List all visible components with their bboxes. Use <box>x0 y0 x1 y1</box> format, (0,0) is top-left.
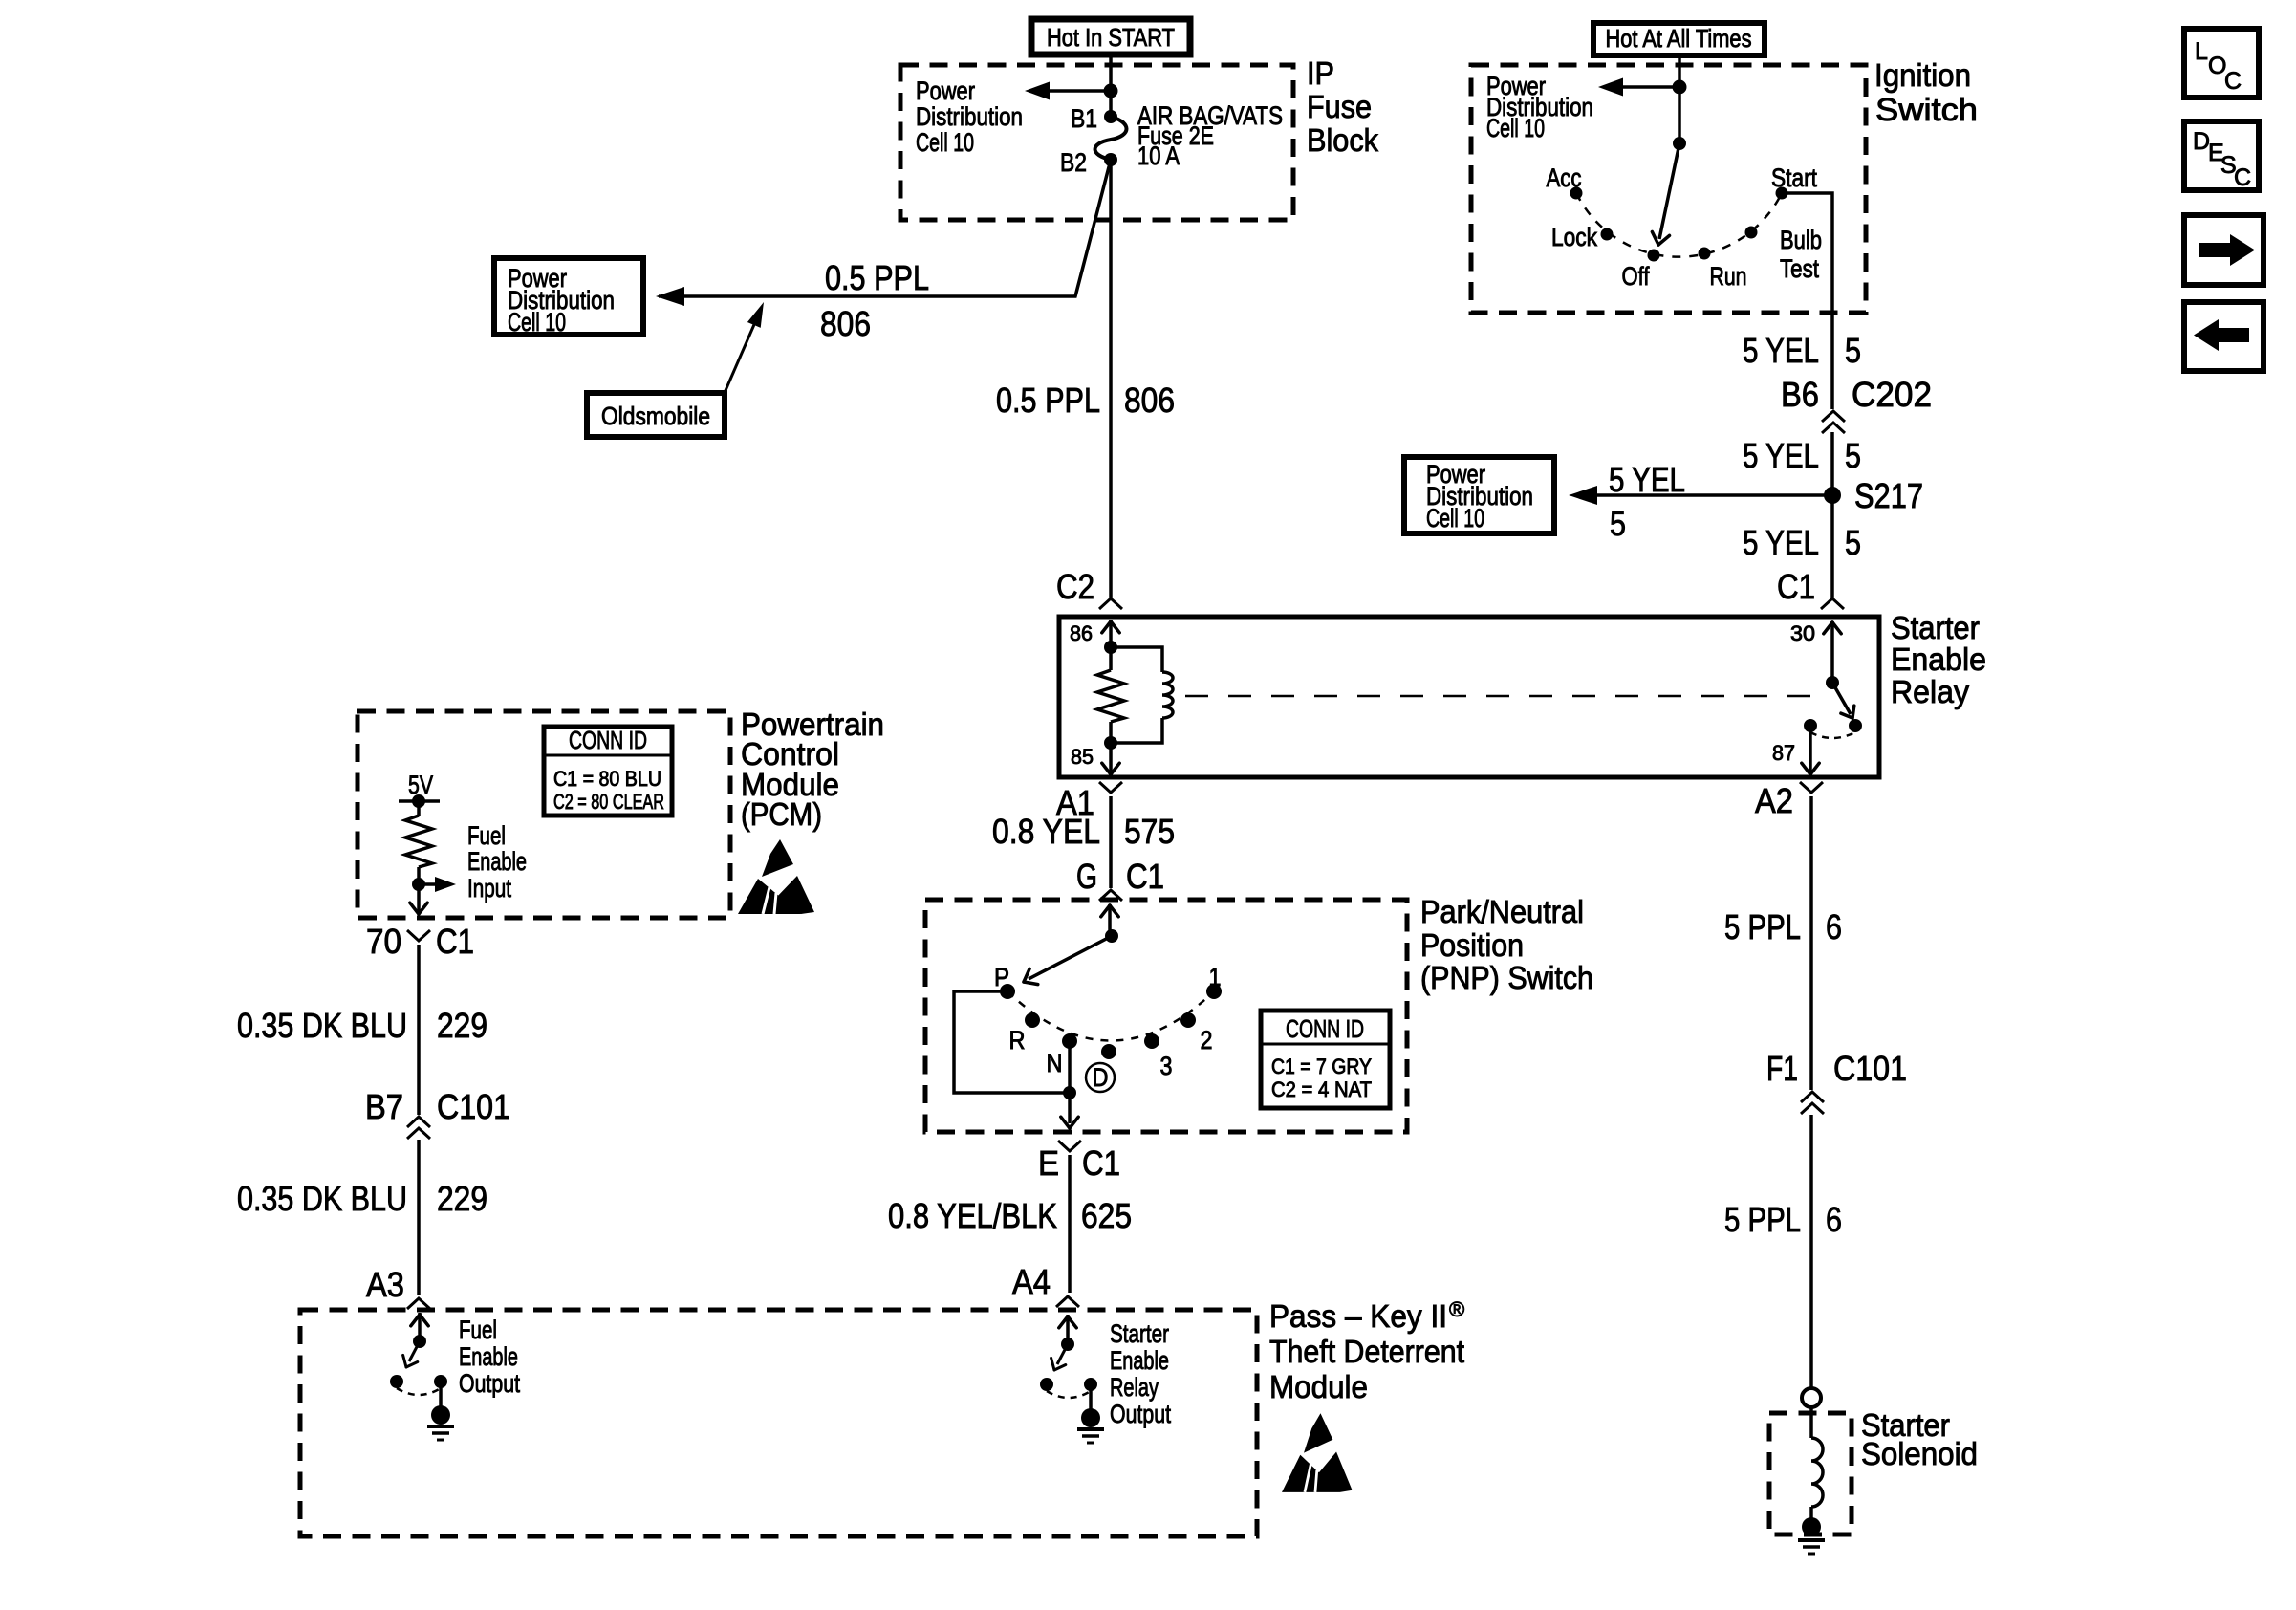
svg-text:86: 86 <box>1070 621 1093 645</box>
svg-text:IP: IP <box>1307 55 1334 91</box>
header Hot At All Times <box>1593 23 1765 55</box>
svg-text:5 YEL: 5 YEL <box>1609 460 1685 499</box>
svg-text:0.35 DK BLU: 0.35 DK BLU <box>237 1006 407 1045</box>
svg-text:6: 6 <box>1826 907 1842 946</box>
svg-text:C2 = 4 NAT: C2 = 4 NAT <box>1271 1077 1372 1101</box>
svg-text:Cell 10: Cell 10 <box>916 128 974 157</box>
ground (starter solenoid) <box>1802 1517 1821 1536</box>
svg-text:A2: A2 <box>1755 781 1793 820</box>
contact P <box>1000 984 1015 999</box>
svg-text:Park/Neutral: Park/Neutral <box>1420 894 1584 929</box>
svg-text:Relay: Relay <box>1891 674 1969 709</box>
ground (starter enable relay output) <box>1089 1384 1093 1410</box>
resistor fuel enable <box>417 801 421 816</box>
svg-text:10 A: 10 A <box>1137 141 1180 170</box>
connector A1 chevron <box>1099 782 1122 793</box>
component box Starter Solenoid <box>1769 1413 1852 1534</box>
wire 5 YEL below C202 <box>1830 432 1834 598</box>
svg-text:5 PPL: 5 PPL <box>1724 907 1801 946</box>
wire 0.35 DK BLU 229 lower <box>417 1140 421 1295</box>
svg-text:Starter: Starter <box>1110 1319 1169 1348</box>
fuel enable input node <box>412 878 425 891</box>
svg-text:5 PPL: 5 PPL <box>1724 1200 1801 1239</box>
component box Powertrain Control Module <box>357 711 730 918</box>
component box Pass-Key II Theft Deterrent Module <box>300 1310 1257 1536</box>
relay switch arm <box>1826 676 1839 689</box>
svg-text:A4: A4 <box>1012 1262 1051 1301</box>
svg-text:C2: C2 <box>1056 567 1094 606</box>
svg-text:F1: F1 <box>1766 1049 1798 1088</box>
connector E chevron <box>1058 1141 1081 1151</box>
wire 0.35 DK BLU 229 upper <box>417 945 421 1115</box>
svg-text:806: 806 <box>1124 381 1175 420</box>
svg-text:®: ® <box>1449 1297 1464 1321</box>
component box Ignition Switch <box>1471 65 1866 313</box>
svg-text:Test: Test <box>1780 254 1819 283</box>
fuel enable output switch <box>418 1313 422 1341</box>
contact Acc <box>1570 187 1583 200</box>
svg-text:Run: Run <box>1710 262 1747 291</box>
svg-text:C: C <box>2224 68 2242 95</box>
svg-text:C101: C101 <box>1833 1049 1907 1088</box>
svg-text:806: 806 <box>820 304 871 343</box>
contact R <box>1025 1012 1040 1028</box>
svg-text:0.5 PPL: 0.5 PPL <box>996 381 1100 420</box>
svg-text:B2: B2 <box>1060 148 1087 177</box>
svg-text:229: 229 <box>437 1006 487 1045</box>
svg-text:Start: Start <box>1771 163 1817 192</box>
connector 70 C1 chevron <box>407 930 430 941</box>
svg-text:Starter: Starter <box>1891 610 1980 645</box>
svg-text:Pass – Key II: Pass – Key II <box>1269 1298 1447 1334</box>
svg-text:0.8 YEL: 0.8 YEL <box>992 812 1100 851</box>
connector C1 chevron (relay 30) <box>1821 598 1844 609</box>
relay switch contact 87 side <box>1804 719 1817 732</box>
svg-text:0.8 YEL/BLK: 0.8 YEL/BLK <box>888 1196 1057 1235</box>
wire N to output <box>1068 1041 1072 1123</box>
svg-text:S217: S217 <box>1854 476 1923 515</box>
connector A2 chevron <box>1800 782 1823 793</box>
header Hot In START <box>1031 19 1190 54</box>
svg-text:5 YEL: 5 YEL <box>1743 436 1819 475</box>
svg-text:C1 = 80 BLU: C1 = 80 BLU <box>553 767 661 791</box>
svg-text:C: C <box>2234 164 2251 191</box>
contact Run <box>1699 248 1711 260</box>
svg-text:70: 70 <box>366 922 401 961</box>
PNP input pin arrow <box>1108 904 1112 936</box>
svg-text:87: 87 <box>1772 741 1795 765</box>
svg-text:E: E <box>1038 1143 1059 1183</box>
svg-text:C1: C1 <box>436 922 474 961</box>
svg-text:Theft Deterrent: Theft Deterrent <box>1269 1334 1464 1369</box>
svg-text:Input: Input <box>467 874 511 903</box>
component box IP Fuse Block <box>900 65 1293 220</box>
wire 0.5 PPL 806 to power distribution <box>659 160 1111 296</box>
svg-text:Enable: Enable <box>467 847 527 876</box>
ground (fuel enable) <box>439 1382 443 1407</box>
connector G chevron (PNP) <box>1099 890 1122 901</box>
svg-text:G: G <box>1076 857 1097 896</box>
ignition rotor arm arrow to Off <box>1659 143 1679 239</box>
button prev-arrow <box>2184 302 2264 371</box>
arrow 5 YEL to power distribution (S217) <box>1586 493 1832 497</box>
svg-text:229: 229 <box>437 1179 487 1218</box>
arrow to power distribution (fuse block) <box>1042 89 1111 93</box>
callout box Oldsmobile <box>587 393 725 437</box>
relay pin 87 <box>1809 726 1812 774</box>
svg-text:Cell 10: Cell 10 <box>508 308 566 337</box>
svg-text:Block: Block <box>1307 122 1378 158</box>
svg-text:Hot In START: Hot In START <box>1047 23 1175 52</box>
component box Power Distribution Cell 10 (left) <box>494 258 643 335</box>
svg-text:Ignition: Ignition <box>1874 57 1971 93</box>
wire from Hot In START into fuse block <box>1109 54 1113 117</box>
junction dot ignition feed <box>1673 80 1687 95</box>
svg-text:5: 5 <box>1845 523 1861 562</box>
svg-text:0.5 PPL: 0.5 PPL <box>825 258 929 297</box>
svg-text:D: D <box>1093 1063 1109 1092</box>
fuse 2E symbol <box>1095 117 1127 160</box>
wire 0.8 YEL 575 <box>1109 796 1113 888</box>
svg-text:C1: C1 <box>1777 567 1815 606</box>
relay pin 85 <box>1104 736 1117 750</box>
svg-text:C202: C202 <box>1852 375 1932 414</box>
svg-text:P: P <box>994 963 1009 991</box>
wire 0.5 PPL 806 vertical <box>1109 160 1113 598</box>
svg-text:Enable: Enable <box>1891 642 1986 677</box>
starter enable relay output switch <box>1066 1315 1070 1344</box>
svg-text:R: R <box>1009 1026 1026 1055</box>
relay actuation dashed line <box>1185 695 1822 698</box>
svg-text:2: 2 <box>1201 1026 1213 1055</box>
svg-text:CONN ID: CONN ID <box>1286 1014 1364 1043</box>
component box Power Distribution Cell 10 (S217) <box>1404 457 1554 533</box>
wire 0.8 YEL/BLK 625 <box>1068 1155 1072 1293</box>
relay pin 30 <box>1830 621 1834 683</box>
contact 1 <box>1206 984 1222 999</box>
svg-text:L: L <box>2195 38 2208 65</box>
svg-text:Enable: Enable <box>459 1342 518 1371</box>
svg-text:A3: A3 <box>366 1265 404 1304</box>
button next-arrow <box>2184 215 2264 285</box>
contact Start <box>1776 187 1788 200</box>
contact N <box>1062 1033 1077 1049</box>
arrow to power distribution (ignition) <box>1615 85 1679 89</box>
svg-text:B6: B6 <box>1781 375 1819 414</box>
connector C2 chevron <box>1099 598 1122 609</box>
wire 5 PPL 6 upper <box>1809 796 1813 1090</box>
svg-text:Fuel: Fuel <box>467 821 506 850</box>
svg-text:C1 = 7 GRY: C1 = 7 GRY <box>1271 1055 1372 1078</box>
svg-text:Relay: Relay <box>1110 1373 1159 1402</box>
connector A4 chevron <box>1056 1296 1079 1307</box>
ESD symbol (PCM) <box>738 839 814 914</box>
PCM output pin arrow <box>417 884 421 913</box>
pin B2 <box>1104 153 1117 166</box>
svg-text:C101: C101 <box>437 1087 510 1126</box>
svg-text:B7: B7 <box>365 1087 403 1126</box>
svg-text:Acc: Acc <box>1547 163 1582 192</box>
contact Bulb Test <box>1745 227 1758 239</box>
svg-text:Hot At All Times: Hot At All Times <box>1606 24 1752 53</box>
wire from Hot At All Times into ignition switch <box>1678 55 1681 143</box>
svg-text:C1: C1 <box>1082 1143 1120 1183</box>
svg-text:5 YEL: 5 YEL <box>1743 523 1819 562</box>
svg-text:Oldsmobile: Oldsmobile <box>601 402 710 430</box>
junction dot <box>1104 84 1118 98</box>
svg-text:6: 6 <box>1826 1200 1842 1239</box>
ignition rotor dot <box>1673 137 1686 150</box>
svg-text:Power: Power <box>916 76 975 105</box>
svg-text:Fuse: Fuse <box>1307 89 1372 124</box>
svg-text:3: 3 <box>1160 1052 1173 1080</box>
wire P to output <box>954 991 1070 1093</box>
button DESC <box>2184 121 2259 190</box>
svg-text:Solenoid: Solenoid <box>1861 1436 1978 1471</box>
svg-text:C1: C1 <box>1126 857 1164 896</box>
component box Starter Enable Relay <box>1059 617 1879 777</box>
svg-text:575: 575 <box>1124 812 1175 851</box>
svg-text:N: N <box>1047 1049 1063 1077</box>
svg-text:C2 = 80 CLEAR: C2 = 80 CLEAR <box>553 790 664 814</box>
svg-text:30: 30 <box>1790 621 1815 645</box>
ESD symbol (Pass-Key) <box>1282 1413 1353 1492</box>
wire from Start contact <box>1782 193 1832 409</box>
svg-text:Bulb: Bulb <box>1780 226 1822 254</box>
arrow from Oldsmobile to wire <box>724 314 759 395</box>
PNP contact arc dashed <box>1007 991 1214 1041</box>
svg-text:(PNP) Switch: (PNP) Switch <box>1420 960 1593 995</box>
svg-text:Enable: Enable <box>1110 1346 1169 1375</box>
button LOC <box>2184 29 2259 98</box>
relay coil resistor <box>1109 647 1113 670</box>
pin B1 <box>1104 110 1117 123</box>
svg-text:1: 1 <box>1209 963 1222 991</box>
contact Lock <box>1601 228 1614 241</box>
svg-text:CONN ID: CONN ID <box>569 726 647 754</box>
svg-text:Switch: Switch <box>1875 92 1978 127</box>
svg-text:Off: Off <box>1622 262 1650 291</box>
svg-text:Cell 10: Cell 10 <box>1486 114 1545 142</box>
wire 5 PPL 6 lower <box>1809 1115 1813 1388</box>
relay pin 86 <box>1109 620 1113 647</box>
svg-text:Cell 10: Cell 10 <box>1426 504 1484 533</box>
svg-text:Distribution: Distribution <box>916 102 1023 131</box>
splice S217 <box>1824 487 1841 504</box>
svg-text:(PCM): (PCM) <box>741 796 822 832</box>
svg-text:5: 5 <box>1845 436 1861 475</box>
svg-text:85: 85 <box>1071 745 1094 769</box>
svg-text:0.35 DK BLU: 0.35 DK BLU <box>237 1179 407 1218</box>
contact D circled <box>1101 1044 1116 1059</box>
CONN ID box (PNP) <box>1261 1011 1390 1108</box>
svg-text:B1: B1 <box>1071 104 1097 133</box>
svg-text:5: 5 <box>1845 331 1861 370</box>
svg-text:5: 5 <box>1610 504 1626 543</box>
starter solenoid coil <box>1809 1407 1813 1438</box>
relay coil inductor <box>1111 647 1162 672</box>
PNP rotor arm arrow to P <box>1029 936 1112 979</box>
starter solenoid terminal circle <box>1802 1388 1821 1407</box>
svg-text:625: 625 <box>1081 1196 1132 1235</box>
svg-text:Output: Output <box>1110 1400 1171 1428</box>
component box Park/Neutral Position Switch <box>925 900 1407 1132</box>
contact 2 <box>1180 1012 1196 1028</box>
CONN ID box (PCM) <box>544 727 672 816</box>
contact Off <box>1648 250 1660 262</box>
svg-text:Module: Module <box>1269 1369 1368 1404</box>
svg-text:Lock: Lock <box>1551 223 1597 251</box>
svg-text:5 YEL: 5 YEL <box>1743 331 1819 370</box>
PNP rotor dot <box>1105 929 1118 943</box>
connector A3 chevron <box>407 1298 430 1309</box>
svg-text:Output: Output <box>459 1369 520 1398</box>
ignition contact arc dashed <box>1576 193 1782 257</box>
contact 3 <box>1144 1033 1159 1049</box>
svg-text:Fuel: Fuel <box>459 1316 497 1344</box>
svg-text:Position: Position <box>1420 927 1524 963</box>
